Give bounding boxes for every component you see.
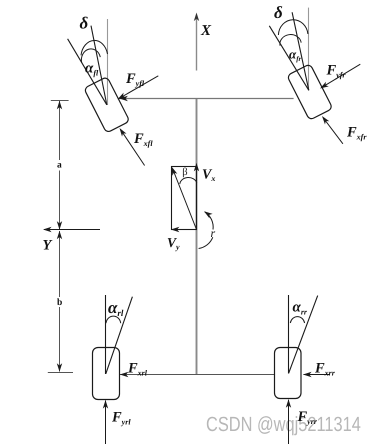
delta arc front-right [278, 20, 308, 35]
front-right wheel vertical ref line [308, 8, 310, 91]
svg-text:b: b [57, 298, 62, 308]
velocity vector V [173, 171, 196, 230]
F_xfr arrow [323, 118, 343, 144]
delta arc front-left [81, 40, 108, 55]
rear-right wheel vertical ref line [288, 295, 290, 374]
F_yrl arrow [105, 401, 107, 444]
front axle [119, 98, 294, 100]
front-left wheel [84, 77, 130, 133]
yaw rate arc [199, 237, 213, 248]
svg-text:CSDN @wqj5211314: CSDN @wqj5211314 [206, 413, 361, 436]
Y axis arrow [44, 229, 100, 231]
F_yfr arrow [322, 64, 361, 87]
svg-text:Y: Y [43, 238, 53, 254]
front-left wheel vertical ref line [107, 19, 109, 105]
rear-right velocity line [289, 296, 318, 374]
front-left wheel direction line A [68, 39, 107, 105]
front-left velocity line B [91, 26, 107, 105]
alpha arc rear-left [106, 316, 121, 323]
alpha arc rear-right [290, 317, 304, 323]
F_xrr arrow [304, 374, 331, 376]
X axis arrow [196, 16, 198, 71]
front-right velocity line B [292, 12, 309, 90]
svg-text:r: r [211, 226, 216, 240]
F_xfl arrow [121, 130, 145, 166]
svg-text:X: X [200, 23, 212, 39]
front axle arrowhead [119, 96, 128, 101]
svg-text:a: a [57, 161, 62, 171]
svg-text:δ: δ [80, 14, 89, 33]
rear-right wheel [275, 348, 302, 399]
alpha arc front-right [280, 35, 301, 46]
front-right wheel direction line A [269, 26, 309, 91]
front-right wheel [287, 64, 333, 120]
dimension top tick [51, 100, 69, 102]
dimension line a [59, 101, 61, 160]
alpha arc front-left [81, 49, 100, 63]
velocity rectangle [172, 167, 197, 230]
rear-left wheel vertical ref line [105, 295, 107, 374]
F_yrr arrow [288, 400, 290, 444]
svg-text:β: β [182, 167, 187, 178]
dimension bottom tick [48, 372, 73, 374]
svg-text:δ: δ [274, 3, 283, 22]
rear-left wheel [93, 348, 120, 400]
F_yfl arrow [119, 76, 158, 99]
center line [196, 99, 198, 374]
beta arc [180, 177, 197, 184]
Vy arrowhead [171, 227, 180, 232]
dimension line b [59, 231, 61, 297]
Vx arrowhead [194, 163, 199, 172]
rear axle / F_xrl arrow [120, 374, 275, 376]
rear-left velocity line [106, 297, 133, 374]
